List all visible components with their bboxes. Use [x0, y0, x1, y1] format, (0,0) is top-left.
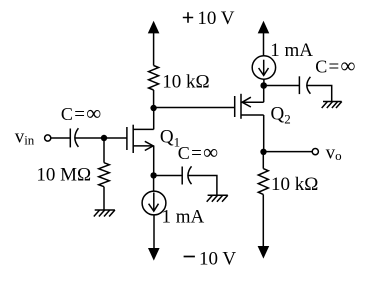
svg-text:10 V: 10 V	[199, 249, 236, 270]
label +10 V	[183, 8, 235, 29]
wire C2 to ground	[188, 176, 217, 196]
wire and arrow to -10V rail (right)	[258, 194, 270, 258]
wire R2 to ground	[103, 187, 105, 210]
node C junction dot (output)	[260, 149, 266, 155]
current source I2 (1 mA, Q2 source bias)	[252, 56, 275, 86]
wire source node to C2	[154, 175, 183, 177]
wire source node down to I1	[153, 175, 155, 191]
node junction dot (Q1 source / bypass cap)	[150, 172, 156, 178]
wire and arrow to -10V rail (left)	[148, 215, 160, 261]
output terminal circle	[312, 149, 318, 155]
wire C3 to ground	[307, 86, 332, 102]
power supply arrow +10V right rail	[258, 21, 270, 56]
node junction dot (gate / 10 MOhm)	[101, 135, 107, 141]
svg-text:1 mA: 1 mA	[162, 206, 205, 227]
wire node A to Q2 gate	[154, 107, 235, 109]
wire Q2 drain down to node C	[263, 115, 265, 152]
transistor Q1 (NMOS)	[127, 125, 154, 153]
wire Q1 source down	[153, 146, 155, 176]
ground below C2	[207, 195, 228, 202]
resistor R3 10 kOhm (Q2 load)	[258, 169, 268, 195]
ground below 10 MOhm	[94, 210, 115, 217]
wire input terminal to C1	[51, 137, 71, 139]
input terminal circle	[45, 135, 51, 141]
svg-text:10 kΩ: 10 kΩ	[162, 71, 209, 92]
wire node C down to R3	[262, 152, 264, 169]
svg-text:10 kΩ: 10 kΩ	[271, 174, 318, 195]
svg-text:vo: vo	[326, 142, 342, 163]
svg-text:10 V: 10 V	[197, 8, 234, 29]
svg-text:vin: vin	[15, 127, 35, 148]
power supply arrow +10V left rail	[148, 21, 160, 66]
node A junction dot (Q1 drain / Q2 gate)	[150, 105, 156, 111]
svg-text:Q2: Q2	[271, 104, 291, 127]
label -10 V	[184, 249, 237, 270]
svg-text:C=∞: C=∞	[61, 101, 101, 125]
capacitor C2 (bypass, C=inf)	[182, 166, 191, 184]
wire node B to C3	[264, 85, 300, 87]
wire Q2 source up to node B	[263, 86, 265, 103]
transistor Q2 (PMOS source follower)	[235, 94, 264, 119]
wire R1 bottom to node A	[153, 90, 155, 108]
wire node C to output terminal	[264, 151, 313, 153]
svg-text:C=∞: C=∞	[178, 140, 218, 164]
svg-text:C=∞: C=∞	[315, 54, 355, 78]
current source I1 (1 mA, Q1 source bias)	[142, 191, 166, 215]
wire node down to R2	[103, 138, 105, 163]
svg-text:10 MΩ: 10 MΩ	[36, 165, 91, 186]
resistor R2 10 MOhm	[99, 163, 110, 187]
capacitor C1 (input coupling, C=inf)	[70, 128, 78, 147]
wire Q1 drain up to node A	[153, 108, 155, 129]
node B junction dot (Q2 source / I2 / C3)	[260, 82, 267, 89]
wire C1 to Q1 gate	[75, 137, 127, 139]
capacitor C3 (C=inf at Q2 source)	[299, 76, 310, 94]
ground below C3	[322, 102, 342, 109]
svg-text:1 mA: 1 mA	[270, 40, 313, 61]
resistor R1 10 kOhm (drain resistor Q1)	[149, 66, 159, 90]
